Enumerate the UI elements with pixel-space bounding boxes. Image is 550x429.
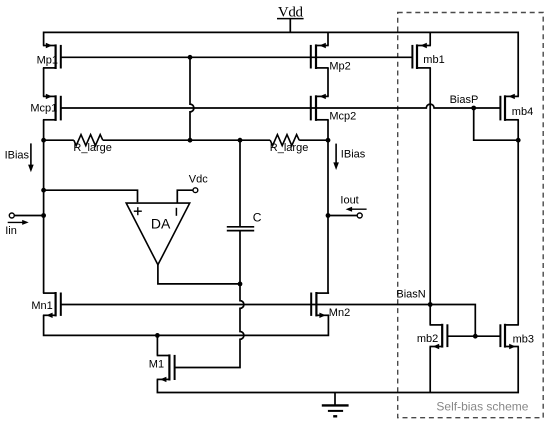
svg-text:Iout: Iout (340, 194, 358, 206)
svg-text:Mp1: Mp1 (37, 54, 58, 66)
wire mb2-mb3 gate line (447, 335, 500, 337)
svg-text:Vdc: Vdc (189, 173, 208, 185)
wire mb1 drain to BiasN (429, 68, 431, 305)
capacitor C (227, 210, 262, 230)
terminal Iout (328, 194, 367, 218)
wire BiasN to mb2 drain (429, 305, 431, 325)
svg-text:Self-bias scheme: Self-bias scheme (436, 400, 528, 414)
svg-text:Iin: Iin (5, 225, 17, 237)
node capacitor top tap (238, 138, 243, 143)
ground (322, 393, 349, 417)
svg-text:Mcp2: Mcp2 (329, 111, 356, 123)
transistor Mn1 (31, 292, 60, 318)
terminal Iin (5, 213, 43, 237)
node mb2/mb3 gate (473, 334, 478, 339)
current arrow IBias (right) (333, 144, 365, 170)
terminal Vdc (189, 173, 208, 192)
wire Mp1 drain to Mcp1 source (43, 68, 45, 97)
node IBias right / Mcp2 drain (326, 138, 331, 143)
wire Vdd rail (44, 32, 519, 96)
transistor Mcp2 (311, 94, 357, 123)
node mb4 drain (516, 138, 521, 143)
power symbol Vdd (277, 5, 304, 32)
transistor Mn2 (311, 292, 350, 319)
wire center rail Mcp2 drain to Mn2 drain (327, 120, 329, 293)
svg-text:M1: M1 (149, 358, 164, 370)
transistor M1 (149, 354, 175, 382)
transistor mb4 (500, 94, 533, 121)
wire NMOS gate / BiasN line (61, 304, 430, 306)
wire PMOS mirror gate line (61, 56, 413, 58)
resistor R_large (left) (73, 135, 112, 154)
node BiasP (471, 106, 476, 111)
wire capacitor bottom (239, 231, 241, 284)
svg-text:IBias: IBias (341, 149, 366, 161)
transistor Mp2 (311, 43, 351, 73)
wire BiasN to mb2/mb3 gates (430, 305, 475, 337)
wire cascode gate / BiasP line with hop over mb1 drain (61, 104, 501, 108)
svg-text:R_large: R_large (270, 142, 309, 154)
transistor mb1 (412, 43, 444, 69)
wire M1 gate vertical with hops (175, 284, 244, 368)
svg-text:mb3: mb3 (513, 333, 534, 345)
transistor Mp1 (37, 43, 61, 69)
wire DA output (158, 264, 240, 284)
node gate bias tap (188, 55, 193, 60)
wire mb4 drain to mb3 drain (517, 120, 519, 325)
wire mb2 source to ground rail (429, 347, 431, 393)
node Iin tap (41, 213, 46, 218)
op-amp U1 DA (126, 203, 190, 265)
svg-text:BiasN: BiasN (396, 288, 425, 300)
wire DA non-inverting input (44, 190, 138, 202)
node gate bias bottom (188, 138, 193, 143)
transistor Mcp1 (30, 94, 60, 121)
svg-text:Mn1: Mn1 (31, 300, 52, 312)
svg-text:DA: DA (151, 215, 171, 231)
svg-text:Mcp1: Mcp1 (30, 103, 57, 115)
node R_large-left / IBias (41, 138, 46, 143)
svg-text:C: C (253, 210, 262, 224)
wire R_large-right to center rail (299, 139, 328, 141)
node Iout tap (326, 213, 331, 218)
node BiasN (428, 302, 433, 307)
wire mb1 source to Vdd (429, 32, 431, 46)
svg-text:mb4: mb4 (512, 106, 533, 118)
wire DA inverting input to Vdc (177, 190, 193, 203)
wire Mp2 source to Vdd (327, 32, 329, 46)
svg-text:mb1: mb1 (423, 54, 444, 66)
wire gate bias vertical with hop (190, 57, 194, 140)
wire BiasP to mb4 drain (474, 108, 519, 140)
node DA plus input tap (41, 188, 46, 193)
wire capacitor top (239, 140, 241, 226)
self-bias scheme dashed box (398, 13, 544, 418)
wire R_large-left to cap node (103, 139, 270, 141)
transistor mb3 (500, 324, 534, 349)
wire M1 source to ground rail (157, 347, 518, 393)
wire Mp2 drain to Mcp2 source (327, 68, 329, 97)
wire Mn1/Mn2 source line (44, 315, 329, 335)
wire M1 drain (156, 335, 158, 355)
resistor R_large (right) (270, 135, 309, 154)
svg-text:Mp2: Mp2 (329, 60, 350, 72)
node DA output / M1 gate (238, 282, 243, 287)
wire left rail Mcp1 drain to Mn1 drain (43, 120, 45, 293)
svg-text:Mn2: Mn2 (329, 307, 350, 319)
transistor mb2 (417, 324, 448, 349)
svg-text:IBias: IBias (5, 149, 30, 161)
svg-text:R_large: R_large (73, 142, 112, 154)
svg-text:mb2: mb2 (417, 333, 438, 345)
wire R_large row left segment (44, 139, 74, 141)
svg-text:BiasP: BiasP (450, 94, 479, 106)
current arrow IBias (left) (5, 143, 34, 172)
node M1 drain (155, 333, 160, 338)
